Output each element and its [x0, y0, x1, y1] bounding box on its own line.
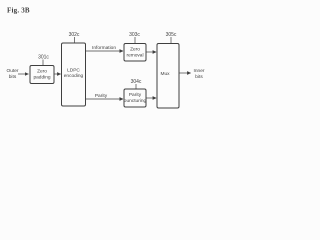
svg-text:Inner: Inner — [194, 68, 205, 74]
wire zero padding to LDPC — [55, 73, 61, 75]
wire parity puncturing to mux — [147, 97, 157, 99]
leader line 302c — [74, 37, 76, 43]
svg-text:removal: removal — [126, 53, 143, 59]
svg-text:LDPC: LDPC — [67, 68, 80, 74]
svg-text:bits: bits — [9, 74, 17, 80]
block 303c Zero removal — [124, 44, 146, 62]
block 304c Parity puncturing — [124, 89, 146, 107]
leader line 304c — [135, 84, 137, 89]
leader line 305c — [170, 37, 172, 44]
block 301c Zero padding — [30, 66, 54, 84]
svg-text:301c: 301c — [38, 55, 49, 61]
leader line 301c — [42, 60, 44, 66]
svg-text:Information: Information — [92, 45, 116, 51]
svg-text:Zero: Zero — [130, 47, 140, 53]
svg-text:Outer: Outer — [7, 68, 19, 74]
svg-text:Zero: Zero — [37, 69, 47, 75]
svg-text:Parity: Parity — [129, 92, 142, 98]
svg-text:padding: padding — [33, 75, 50, 81]
wire zero removal to mux — [147, 51, 157, 53]
svg-text:bits: bits — [195, 74, 203, 80]
svg-text:Fig. 3B: Fig. 3B — [7, 7, 30, 15]
wire input arrow into zero padding — [18, 73, 28, 75]
block 305c Mux — [157, 44, 179, 109]
leader line 303c — [134, 37, 136, 44]
svg-text:puncturing: puncturing — [124, 98, 147, 104]
svg-text:Mux: Mux — [160, 71, 170, 77]
svg-text:Parity: Parity — [95, 93, 108, 99]
block 302c LDPC encoding — [62, 43, 86, 106]
wire output arrow — [179, 72, 191, 74]
svg-text:encoding: encoding — [64, 73, 84, 79]
